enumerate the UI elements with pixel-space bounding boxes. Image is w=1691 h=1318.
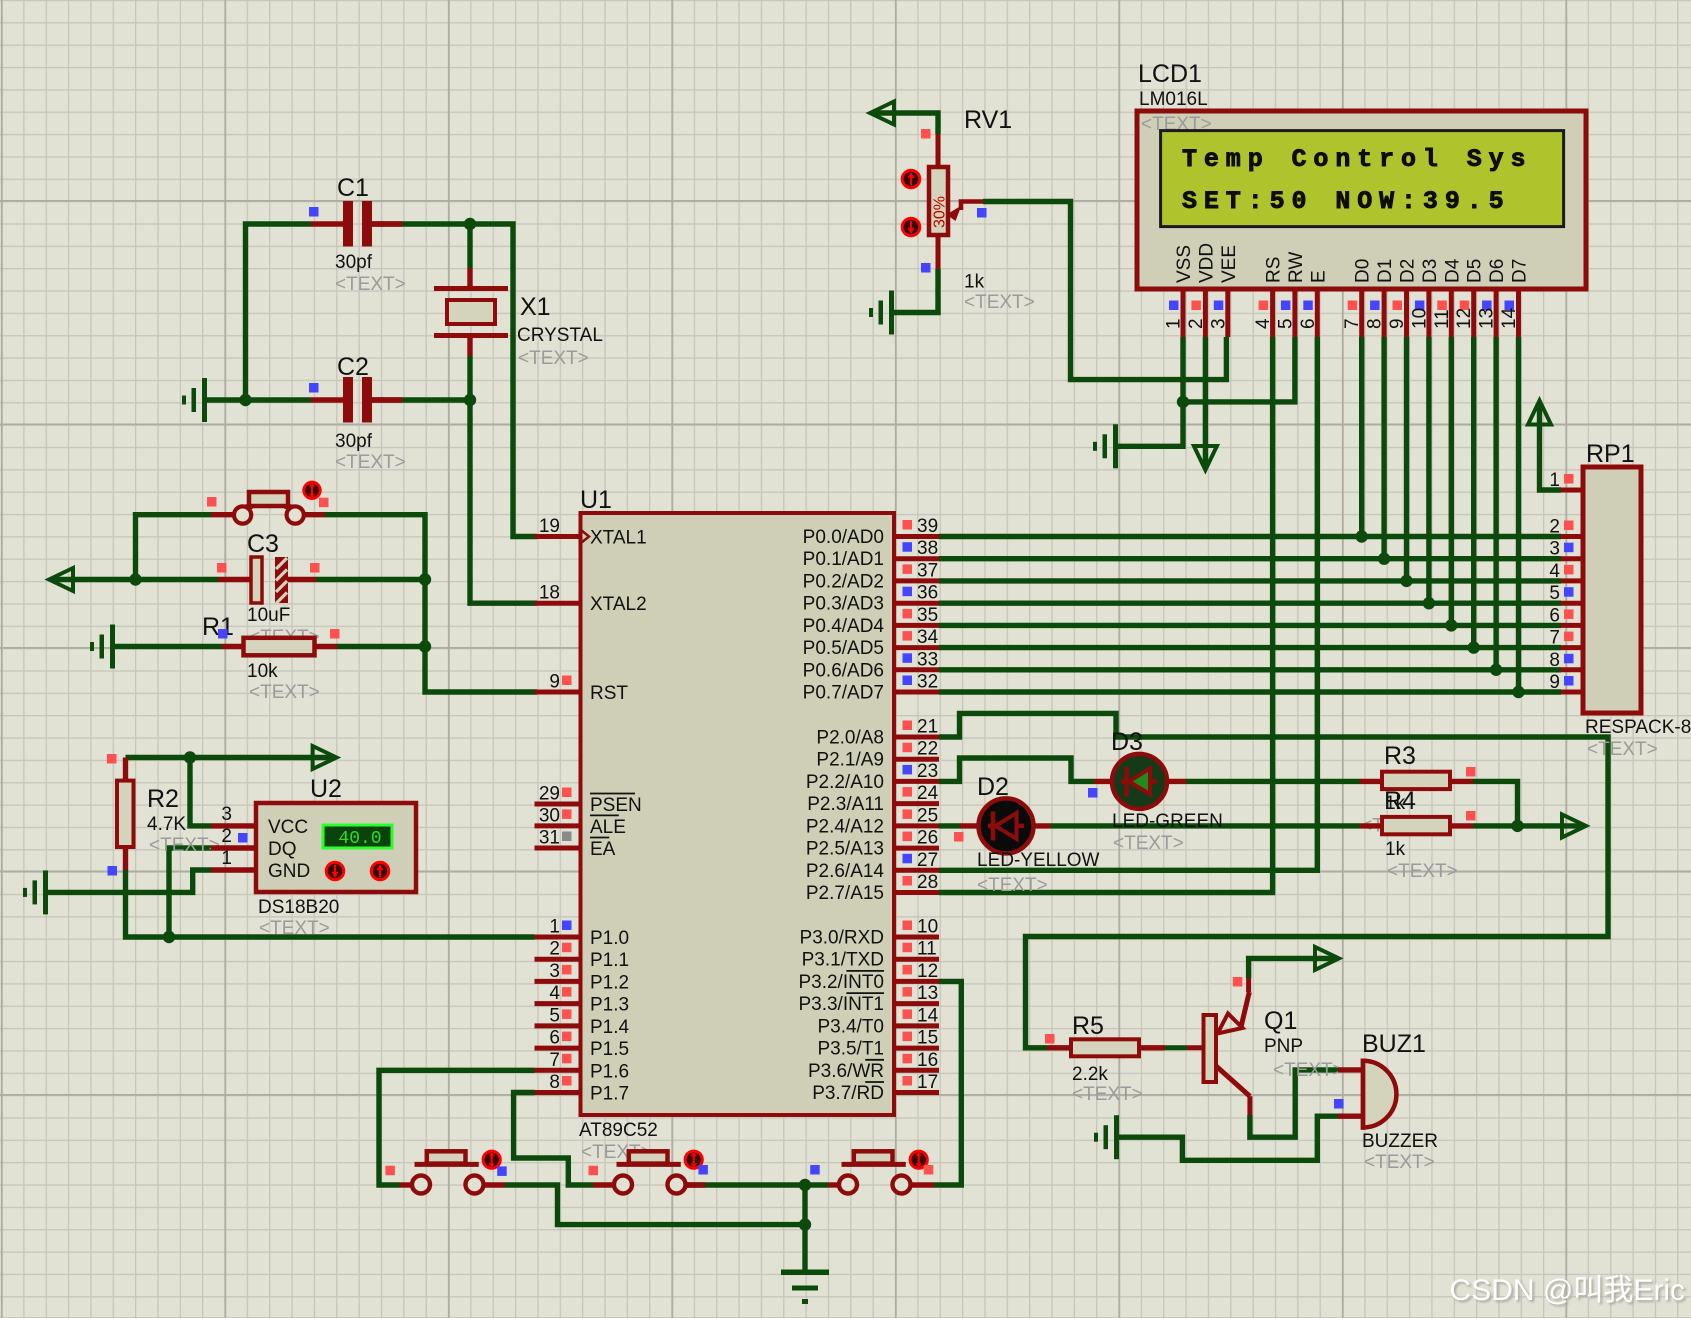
ground C2 (202, 378, 207, 422)
svg-text:C1: C1 (337, 174, 369, 202)
svg-text:P3.0/RXD: P3.0/RXD (800, 928, 884, 949)
svg-text:P1.3: P1.3 (590, 995, 629, 1016)
svg-text:4.7K: 4.7K (147, 814, 186, 835)
button reset leads (211, 512, 234, 517)
U1 pin 28 P2.7/A15 (894, 890, 939, 895)
wire RV1 top terminal (872, 113, 938, 134)
svg-text:DS18B20: DS18B20 (258, 897, 339, 918)
Q1 red square (1233, 977, 1243, 987)
button K3 squares (810, 1165, 820, 1175)
terminal VEE down arrow (1194, 446, 1217, 470)
svg-text:P0.0/AD0: P0.0/AD0 (803, 527, 884, 548)
svg-text:RV1: RV1 (964, 106, 1012, 134)
svg-text:P3.3/INT1: P3.3/INT1 (798, 994, 884, 1015)
U1 pin 34 P0.5/AD5 (894, 645, 939, 650)
svg-text:P1.5: P1.5 (590, 1039, 629, 1060)
wire X1 top to C1 net (467, 224, 472, 268)
wire button2 to button3 (684, 1182, 828, 1187)
wire P1.6 to button1 (379, 1070, 535, 1185)
svg-text:9: 9 (549, 672, 560, 693)
svg-text:XTAL1: XTAL1 (590, 528, 647, 549)
svg-text:U2: U2 (310, 775, 342, 803)
wire button to RST riser (136, 515, 212, 580)
button K2 squares (589, 1166, 599, 1176)
svg-text:23: 23 (917, 761, 938, 782)
svg-text:P3.5/T1: P3.5/T1 (817, 1039, 884, 1060)
U1 pin 7 P1.6 (535, 1068, 581, 1073)
svg-text:XTAL2: XTAL2 (590, 594, 647, 615)
wire LCD D2 vertical (1404, 337, 1409, 581)
svg-text:1k: 1k (964, 272, 985, 293)
node VSS (1177, 396, 1189, 408)
node C2-gnd (239, 394, 251, 406)
wire button1 to gnd rail (505, 1185, 805, 1225)
RP1 body (1583, 467, 1641, 713)
svg-text:P2.6/A14: P2.6/A14 (806, 861, 885, 882)
svg-text:<TEXT>: <TEXT> (518, 348, 589, 369)
U1 pin 16 P3.6/WR (894, 1068, 939, 1073)
svg-text:P1.1: P1.1 (590, 950, 629, 971)
svg-text:22: 22 (917, 739, 938, 760)
wire C2 right to X1 (372, 397, 470, 402)
svg-text:37: 37 (917, 560, 938, 581)
svg-text:28: 28 (917, 872, 938, 893)
svg-text:11: 11 (917, 939, 937, 960)
wire LCD D1 vertical (1381, 337, 1386, 559)
LCD1 pin 5 RW (1292, 289, 1297, 337)
U1 pin 21 P2.0/A8 (894, 735, 939, 740)
wire terminal to C3 left (52, 577, 218, 582)
LED D3 (1094, 779, 1113, 784)
ground RV1 (889, 291, 894, 335)
svg-text:6: 6 (1549, 605, 1560, 626)
wire X1 bottom to XTAL2 (470, 356, 537, 603)
svg-text:33: 33 (917, 649, 938, 670)
svg-text:Temp Control Sys: Temp Control Sys (1182, 145, 1532, 174)
button reset squares (207, 497, 217, 507)
svg-text:R4: R4 (1384, 787, 1416, 815)
svg-text:C2: C2 (337, 353, 369, 381)
U1 pin 27 P2.6/A14 (894, 868, 939, 873)
node buttons-gnd-a (799, 1179, 811, 1191)
svg-text:R2: R2 (147, 785, 179, 813)
wire P0.1 bus line (939, 556, 1561, 561)
svg-text:27: 27 (917, 850, 938, 871)
U1 pin 4 P1.3 (535, 1001, 581, 1006)
node D2-P0.2 (1400, 575, 1412, 587)
svg-text:P2.5/A13: P2.5/A13 (806, 839, 884, 860)
svg-text:1: 1 (221, 848, 232, 869)
svg-text:P2.3/A11: P2.3/A11 (807, 794, 884, 815)
svg-text:DQ: DQ (268, 839, 297, 860)
D2 red square (954, 832, 964, 842)
svg-text:<TEXT>: <TEXT> (1387, 861, 1458, 882)
svg-text:2: 2 (1549, 517, 1560, 538)
svg-text:10uF: 10uF (247, 605, 290, 626)
svg-text:C3: C3 (247, 530, 279, 558)
LCD1 pin 6 E (1315, 289, 1320, 337)
svg-text:30%: 30% (932, 196, 949, 228)
svg-text:P1.6: P1.6 (590, 1061, 629, 1082)
svg-text:10: 10 (917, 917, 938, 938)
svg-text:8: 8 (1549, 650, 1560, 671)
svg-text:3: 3 (549, 961, 560, 982)
U1 pin 31 EA (535, 846, 581, 851)
RP1 pin 4 (1561, 578, 1583, 583)
svg-text:P1.4: P1.4 (590, 1017, 630, 1038)
svg-text:32: 32 (917, 672, 938, 693)
RP1 pin 2 (1561, 534, 1583, 539)
U1 pin 3 P1.2 (535, 979, 581, 984)
svg-text:VEE: VEE (1219, 245, 1240, 283)
svg-text:10: 10 (1409, 308, 1430, 329)
wire P0.6 bus line (939, 667, 1561, 672)
LCD1 pin 12 D5 (1471, 289, 1476, 337)
wire P0.3 bus line (939, 601, 1561, 606)
RP1 pin 8 (1561, 667, 1583, 672)
svg-text:P2.2/A10: P2.2/A10 (806, 772, 884, 793)
node D6-P0.6 (1490, 664, 1502, 676)
svg-text:R5: R5 (1072, 1012, 1104, 1040)
svg-text:30pf: 30pf (335, 252, 373, 273)
node D1-P0.1 (1378, 553, 1390, 565)
svg-text:P3.4/T0: P3.4/T0 (817, 1016, 884, 1037)
U1 pin 23 P2.2/A10 (894, 779, 939, 784)
wire P0.4 bus line (939, 623, 1561, 628)
wire DQ to P1.0 net (169, 848, 211, 937)
node X1-C2 (464, 394, 476, 406)
RP1 pin 1 (1561, 488, 1583, 493)
svg-text:4: 4 (1549, 561, 1560, 582)
svg-text:P2.4/A12: P2.4/A12 (806, 816, 884, 837)
svg-text:12: 12 (917, 961, 938, 982)
wire C1 right to XTAL1 (372, 224, 537, 537)
svg-text:P1.2: P1.2 (590, 972, 629, 993)
U1 pin 24 P2.3/A11 (894, 801, 939, 806)
svg-text:2: 2 (549, 939, 560, 960)
U1 pin 18 XTAL2 (535, 601, 581, 606)
button K1 leads (400, 1182, 413, 1187)
U2 pin stubs (211, 823, 256, 828)
svg-text:38: 38 (917, 538, 938, 559)
svg-text:40.0: 40.0 (338, 829, 381, 849)
U1 pin 8 P1.7 (535, 1090, 581, 1095)
svg-text:LED-GREEN: LED-GREEN (1112, 811, 1223, 832)
svg-text:PSEN: PSEN (590, 795, 642, 816)
svg-text:2: 2 (221, 826, 232, 847)
svg-text:<TEXT>: <TEXT> (335, 452, 406, 473)
svg-text:31: 31 (539, 828, 560, 849)
svg-text:LM016L: LM016L (1139, 89, 1208, 110)
wire P0.5 bus line (939, 645, 1561, 650)
wire LCD D5 vertical (1471, 337, 1476, 648)
RV1 wiper (947, 206, 962, 222)
U1 pin 10 P3.0/RXD (894, 935, 939, 940)
button K2 (629, 1151, 668, 1163)
wire D2 to R4 (1051, 823, 1361, 828)
terminal left arrow RV1 (870, 102, 894, 125)
node DQ (163, 931, 175, 943)
resistor R5 (1047, 1045, 1071, 1050)
U1 XTAL1 clock mark (581, 530, 589, 543)
D3 blue square (1088, 788, 1098, 798)
terminal VCC up arrow (1528, 401, 1551, 425)
button K2 leads (593, 1182, 615, 1187)
svg-text:6: 6 (549, 1028, 560, 1049)
buzzer BUZ1 (1338, 1067, 1363, 1072)
U1 pin 2 P1.1 (535, 957, 581, 962)
U1 pin 36 P0.3/AD3 (894, 601, 939, 606)
terminal VCC right arrow R2 (313, 746, 337, 769)
svg-text:D6: D6 (1487, 259, 1508, 283)
wire ground to C2 left (207, 397, 311, 402)
svg-text:11: 11 (1432, 309, 1453, 329)
svg-text:5: 5 (1275, 318, 1296, 329)
node D4-P0.4 (1445, 619, 1457, 631)
RP1 pin 9 (1561, 690, 1583, 695)
RP1 pin 7 (1561, 645, 1583, 650)
wire LCD VSS to ground (1118, 337, 1183, 446)
svg-text:BUZZER: BUZZER (1362, 1131, 1438, 1152)
BUZ1 blue square (1334, 1099, 1344, 1109)
svg-text:D2: D2 (1398, 259, 1419, 283)
svg-text:5: 5 (549, 1005, 560, 1026)
wire R4 to VCC terminal (1473, 823, 1584, 828)
svg-text:36: 36 (917, 583, 938, 604)
svg-text:ALE: ALE (590, 817, 626, 838)
button K3 leads (828, 1182, 840, 1187)
LCD1 pin 8 D1 (1382, 289, 1387, 337)
LCD1 pin 1 VSS (1181, 289, 1186, 337)
svg-text:R3: R3 (1384, 742, 1416, 770)
svg-text:D5: D5 (1465, 259, 1486, 283)
U1 pin 19 XTAL1 (535, 534, 581, 539)
svg-text:CRYSTAL: CRYSTAL (517, 325, 603, 346)
svg-text:RS: RS (1264, 257, 1285, 283)
svg-text:39: 39 (917, 516, 938, 537)
wire LCD D0 vertical (1359, 337, 1364, 537)
RP1 pin 6 (1561, 623, 1583, 628)
ground R1 (110, 625, 115, 669)
svg-text:X1: X1 (520, 293, 551, 321)
U1 pin 14 P3.4/T0 (894, 1023, 939, 1028)
svg-text:D0: D0 (1353, 259, 1374, 283)
svg-text:1: 1 (1164, 318, 1185, 329)
svg-text:BUZ1: BUZ1 (1362, 1030, 1426, 1058)
svg-text:P1.0: P1.0 (590, 928, 629, 949)
svg-text:E: E (1308, 270, 1329, 283)
svg-text:P3.1/TXD: P3.1/TXD (802, 950, 884, 971)
node D3-P0.3 (1423, 597, 1435, 609)
wire C1 left to ground riser (246, 224, 312, 400)
ground LCD VSS (1113, 424, 1118, 468)
R5 base link (1165, 1045, 1187, 1050)
svg-text:<TEXT>: <TEXT> (1587, 739, 1658, 760)
svg-text:VCC: VCC (268, 817, 308, 838)
terminal left arrow C3 net (49, 568, 73, 591)
svg-text:P2.0/A8: P2.0/A8 (816, 728, 884, 749)
svg-text:7: 7 (1342, 318, 1363, 329)
U1 pin 25 P2.4/A12 (894, 823, 939, 828)
svg-text:24: 24 (917, 783, 939, 804)
crystal X1 (467, 268, 472, 286)
LCD1 pin 11 D4 (1449, 289, 1454, 337)
R1 squares (218, 629, 228, 639)
wire Q1 emitter to VCC (1249, 958, 1337, 978)
svg-text:RW: RW (1286, 252, 1307, 283)
svg-text:12: 12 (1454, 308, 1475, 329)
RP1 pin 5 (1561, 601, 1583, 606)
svg-text:Q1: Q1 (1264, 1007, 1297, 1035)
U1 pin 6 P1.5 (535, 1046, 581, 1051)
wire P1.7 to button2 (514, 1093, 593, 1186)
button K3 (854, 1151, 893, 1163)
svg-text:RST: RST (590, 683, 628, 704)
U1 pin 15 P3.5/T1 (894, 1046, 939, 1051)
resistor R4 (1360, 823, 1382, 828)
wire LCD D7 vertical (1516, 337, 1521, 692)
U1 pin 11 P3.1/TXD (894, 957, 939, 962)
RP1 pin 3 (1561, 556, 1583, 561)
svg-text:8: 8 (549, 1072, 560, 1093)
RV1 buttons (902, 170, 920, 188)
node R2-VCC (184, 751, 196, 763)
svg-text:2.2k: 2.2k (1072, 1064, 1108, 1085)
LCD1 body (1137, 111, 1586, 289)
svg-text:P3.7/RD: P3.7/RD (812, 1083, 884, 1104)
svg-text:4: 4 (549, 983, 560, 1004)
svg-text:VDD: VDD (1196, 243, 1217, 283)
wire P2.4 to D2 (939, 823, 961, 828)
node R3-R4 (1511, 820, 1523, 832)
svg-text:25: 25 (917, 805, 938, 826)
svg-text:35: 35 (917, 605, 938, 626)
svg-text:<TEXT>: <TEXT> (149, 835, 220, 856)
resistor R2 (123, 758, 128, 781)
U1 pin 12 P3.2/INT0 (894, 979, 939, 984)
ground buzzer (1114, 1115, 1119, 1159)
svg-text:<TEXT>: <TEXT> (259, 918, 330, 939)
U1 pin 33 P0.6/AD6 (894, 667, 939, 672)
svg-text:9: 9 (1387, 318, 1408, 329)
U1 pin 1 P1.0 (535, 935, 581, 940)
potentiometer RV1 (936, 134, 941, 167)
svg-text:<TEXT>: <TEXT> (1113, 833, 1184, 854)
svg-text:P0.5/AD5: P0.5/AD5 (803, 638, 884, 659)
svg-text:3: 3 (1549, 539, 1560, 560)
wire LCD D4 vertical (1449, 337, 1454, 625)
svg-text:7: 7 (1549, 628, 1560, 649)
R5 red square (1045, 1034, 1055, 1044)
wire P0.2 bus line (939, 578, 1561, 583)
U1 pin 5 P1.4 (535, 1023, 581, 1028)
transistor Q1 (1204, 1015, 1217, 1082)
svg-text:U1: U1 (580, 486, 612, 514)
svg-text:P1.7: P1.7 (590, 1084, 629, 1105)
svg-text:LCD1: LCD1 (1138, 60, 1202, 88)
svg-text:<TEXT>: <TEXT> (335, 274, 406, 295)
svg-text:P2.7/A15: P2.7/A15 (806, 883, 884, 904)
LCD1 pin 9 D2 (1404, 289, 1409, 337)
svg-text:<TEXT>: <TEXT> (964, 292, 1035, 313)
ground buttons (781, 1270, 829, 1276)
LCD1 pin 10 D3 (1426, 289, 1431, 337)
svg-text:30: 30 (539, 805, 560, 826)
capacitor C2 (311, 397, 343, 402)
svg-text:13: 13 (917, 983, 938, 1004)
wire VCC rail to U2 (190, 758, 211, 826)
LCD1 pin 7 D0 (1359, 289, 1364, 337)
svg-text:10k: 10k (247, 661, 278, 682)
wire gnd to R1 (115, 644, 222, 649)
capacitor C1 (311, 221, 343, 226)
button K1 (427, 1151, 466, 1163)
svg-text:R1: R1 (202, 613, 234, 641)
U1 pin 29 PSEN (535, 802, 581, 807)
wire VSS to RW (1183, 337, 1295, 402)
LCD1 screen (1161, 131, 1564, 227)
svg-text:P0.7/AD7: P0.7/AD7 (803, 683, 884, 704)
svg-text:RP1: RP1 (1586, 440, 1635, 468)
U1 pin 9 RST (535, 690, 581, 695)
svg-text:D7: D7 (1510, 259, 1531, 283)
svg-text:1k: 1k (1385, 839, 1406, 860)
svg-text:P0.3/AD3: P0.3/AD3 (803, 594, 884, 615)
svg-text:CSDN @叫我Eric: CSDN @叫我Eric (1450, 1274, 1685, 1307)
C2 blue square (309, 383, 319, 393)
svg-text:14: 14 (917, 1005, 939, 1026)
LCD1 pin 14 D7 (1516, 289, 1521, 337)
wire U2 GND to ground (48, 870, 211, 892)
U1 body (581, 513, 895, 1115)
node D0-P0.0 (1356, 530, 1368, 542)
capacitor C3 (218, 577, 251, 582)
U2 pin2 square (238, 833, 248, 843)
svg-text:<TEXT>: <TEXT> (977, 875, 1048, 896)
svg-text:26: 26 (917, 828, 938, 849)
wire buzzer to ground (1119, 1116, 1338, 1160)
svg-text:VSS: VSS (1174, 245, 1195, 283)
terminal VCC right arrow R4 (1562, 814, 1586, 837)
svg-text:2: 2 (1186, 318, 1207, 329)
LCD1 pin 2 VDD (1203, 289, 1208, 337)
wire LCD D3 vertical (1426, 337, 1431, 603)
svg-text:LED-YELLOW: LED-YELLOW (977, 850, 1100, 871)
node D7-P0.7 (1512, 686, 1524, 698)
U1 pin 37 P0.2/AD2 (894, 578, 939, 583)
wire RV1 bottom to ground (894, 269, 938, 313)
svg-text:3: 3 (1208, 318, 1229, 329)
wire RP1 pin1 to VCC (1540, 403, 1562, 490)
svg-text:13: 13 (1477, 308, 1498, 329)
resistor R3 (1360, 779, 1382, 784)
ground U2 (43, 870, 48, 914)
svg-text:GND: GND (268, 861, 310, 882)
svg-text:14: 14 (1499, 307, 1520, 329)
svg-text:9: 9 (1549, 672, 1560, 693)
node X1-C1 (464, 218, 476, 230)
svg-text:<TEXT>: <TEXT> (249, 682, 320, 703)
R4 red square (1466, 811, 1476, 821)
wire C3 right to RST riser (316, 577, 425, 582)
R2 squares (107, 754, 117, 764)
svg-text:P3.6/WR: P3.6/WR (808, 1061, 884, 1082)
LCD1 pin 4 RS (1270, 289, 1275, 337)
svg-text:6: 6 (1298, 318, 1319, 329)
svg-text:AT89C52: AT89C52 (579, 1120, 658, 1141)
wire buttons ground riser (802, 1185, 807, 1270)
button K1 squares (385, 1166, 395, 1176)
